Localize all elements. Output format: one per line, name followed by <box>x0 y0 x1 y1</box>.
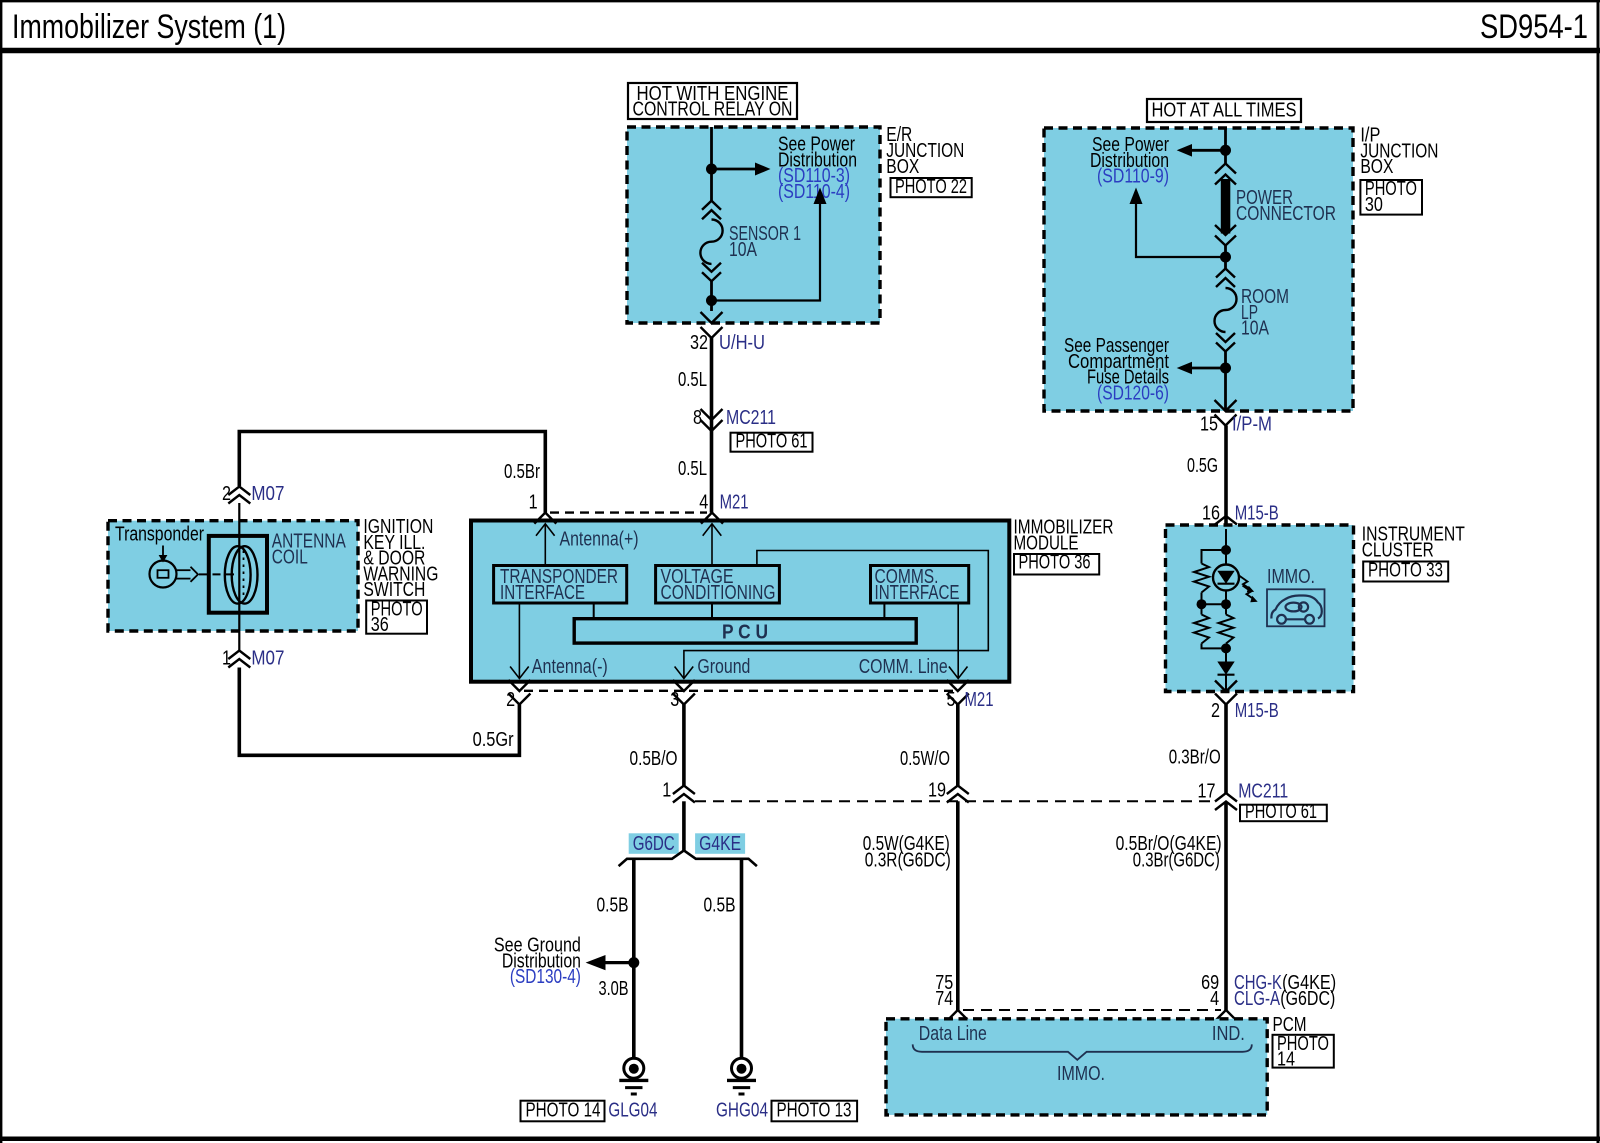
label: See Power Distribution (SD110-3)(SD110-4) <box>778 134 857 203</box>
PCM pin 69/4 chevron CHG-K/CLG-A <box>1201 972 1237 1021</box>
node: row2 left <box>1197 599 1207 609</box>
label box G6DC <box>629 833 679 855</box>
label: HOT AT ALL TIMES <box>1147 99 1301 122</box>
svg-text:1: 1 <box>529 492 538 514</box>
svg-text:CLG-A: CLG-A <box>1234 988 1280 1010</box>
wire: battery feed in I/P box <box>1224 128 1227 411</box>
wire 0.5Br/O(G4KE)/0.3Br(G6DC) to PCM <box>1116 802 1226 1011</box>
connector 2 M07 <box>222 483 284 505</box>
svg-text:Antenna(+): Antenna(+) <box>560 529 639 551</box>
svg-text:M07: M07 <box>251 648 284 670</box>
svg-text:CONNECTOR: CONNECTOR <box>1236 203 1336 225</box>
svg-text:BOX: BOX <box>886 156 919 178</box>
svg-text:CONTROL RELAY ON: CONTROL RELAY ON <box>633 99 793 121</box>
svg-text:IND.: IND. <box>1212 1023 1245 1045</box>
label: CHG-K(G4KE) <box>1234 972 1336 994</box>
wire 0.5L <box>678 338 712 513</box>
svg-text:INTERFACE: INTERFACE <box>875 582 960 604</box>
svg-text:19: 19 <box>928 780 946 802</box>
LED radiation arrows <box>1239 576 1258 603</box>
internal antenna(-) wire with arrow <box>510 603 529 679</box>
label: CLG-A(G6DC) <box>1234 988 1335 1010</box>
module top connector dashed line M21 <box>550 511 707 513</box>
fuse SENSOR 1 10A <box>700 201 801 282</box>
svg-text:Antenna(-): Antenna(-) <box>532 656 608 678</box>
svg-text:I/P-M: I/P-M <box>1232 414 1272 436</box>
svg-text:4: 4 <box>699 492 708 514</box>
wire between row2 nodes <box>1202 603 1227 605</box>
arrow up to (SD110-9) <box>1130 188 1226 258</box>
svg-text:74: 74 <box>935 988 953 1010</box>
internal arrow pin1 to transponder interface <box>536 524 555 566</box>
svg-text:PHOTO 33: PHOTO 33 <box>1368 560 1443 582</box>
internal ground routing wire <box>684 551 988 679</box>
wire: antenna(-) 0.5Gr from coil pin1 to module pin2 <box>239 668 519 756</box>
svg-text:0.5G: 0.5G <box>1187 455 1218 477</box>
svg-text:M15-B: M15-B <box>1235 700 1279 722</box>
svg-text:0.3Br/O: 0.3Br/O <box>1169 747 1221 769</box>
wire down to engine splice <box>682 801 686 850</box>
svg-text:Data Line: Data Line <box>919 1023 987 1045</box>
power connector symbol <box>1215 164 1336 246</box>
svg-text:M21: M21 <box>720 492 749 514</box>
pin 4 chevron M21 <box>699 492 748 524</box>
svg-text:(SD110-9): (SD110-9) <box>1097 166 1169 188</box>
svg-text:0.5B: 0.5B <box>704 895 736 917</box>
connector 17 MC211 <box>1198 781 1289 811</box>
label box PHOTO 14 (PCM) <box>1273 1033 1334 1071</box>
wire: battery feed in E/R box <box>710 127 713 311</box>
svg-text:G4KE: G4KE <box>699 833 741 855</box>
label box PHOTO 61 (lower) <box>1240 801 1327 823</box>
svg-text:Ground: Ground <box>697 656 750 678</box>
ground GLG04 <box>619 1058 648 1094</box>
label box G4KE <box>695 833 745 855</box>
label box PHOTO 36 (coil) <box>366 599 427 637</box>
svg-text:1: 1 <box>222 648 231 670</box>
label: HOT WITH ENGINE CONTROL RELAY ON <box>628 83 797 121</box>
wire 0.5B right ground <box>704 859 742 1058</box>
svg-text:HOT AT ALL TIMES: HOT AT ALL TIMES <box>1152 100 1297 122</box>
svg-text:PHOTO 61: PHOTO 61 <box>736 431 808 453</box>
pin 5 chevrons M21 <box>947 680 994 711</box>
connector 16 M15-B <box>1202 503 1279 541</box>
svg-text:G6DC: G6DC <box>633 833 675 855</box>
arrow to See Passenger Compartment Fuse Details <box>1177 362 1226 375</box>
cluster wire top <box>1225 529 1227 550</box>
PCM pin 75/74 chevron <box>935 972 969 1021</box>
transponder key symbol <box>150 561 199 588</box>
label: INSTRUMENT CLUSTER <box>1362 524 1465 562</box>
svg-text:3.0B: 3.0B <box>599 978 629 1000</box>
label: I/P JUNCTION BOX <box>1360 125 1438 179</box>
svg-text:0.5L: 0.5L <box>678 369 707 391</box>
arrow to See Ground Distribution 3.0B <box>586 955 634 1000</box>
connector 15 I/P-M <box>1200 400 1272 436</box>
svg-text:CLUSTER: CLUSTER <box>1362 539 1434 561</box>
svg-text:BOX: BOX <box>1360 156 1393 178</box>
connector 19 <box>928 780 969 803</box>
node: cluster top junction <box>1221 545 1231 555</box>
IMMO car indicator icon <box>1267 589 1325 626</box>
PCM box <box>886 1019 1267 1115</box>
antenna coil box (ignition key ill. & door warning switch) <box>108 521 358 631</box>
ground GHG04 <box>727 1058 756 1094</box>
svg-text:P C U: P C U <box>722 621 768 643</box>
node: row2 center <box>1221 599 1231 609</box>
block: VOLTAGE CONDITIONING <box>656 566 780 605</box>
wire 0.5B/O from module pin3 <box>630 705 684 786</box>
node: ground distribution junction <box>628 957 639 968</box>
svg-text:IMMO.: IMMO. <box>1267 566 1315 588</box>
svg-text:M21: M21 <box>965 689 994 711</box>
PCM connector dashed line <box>963 1009 1221 1011</box>
resistor R3 <box>1219 604 1234 648</box>
svg-text:10A: 10A <box>729 239 758 261</box>
label box PHOTO 33 <box>1363 560 1448 582</box>
block: PCU <box>574 619 916 644</box>
svg-text:16: 16 <box>1202 503 1220 525</box>
label: See Passenger Compartment Fuse Details (SD120-6) <box>1064 335 1169 404</box>
I/P junction box <box>1044 128 1353 411</box>
svg-text:PHOTO 22: PHOTO 22 <box>895 176 967 198</box>
node: E/R feed junction <box>706 164 717 175</box>
svg-text:0.5Gr: 0.5Gr <box>473 729 514 751</box>
E/R junction box <box>627 127 880 323</box>
svg-text:1: 1 <box>662 780 671 802</box>
svg-text:(G6DC): (G6DC) <box>1280 988 1335 1010</box>
svg-text:PHOTO 61: PHOTO 61 <box>1245 801 1317 823</box>
svg-text:15: 15 <box>1200 414 1218 436</box>
label box PHOTO 61 (MC211) <box>731 431 813 453</box>
svg-text:0.3Br(G6DC): 0.3Br(G6DC) <box>1133 850 1220 872</box>
fuse ROOM LP 10A <box>1215 269 1290 352</box>
svg-text:2: 2 <box>1211 700 1220 722</box>
wire: antenna(+) 0.5Br from coil pin2 to module pin1 <box>239 432 545 513</box>
arrow up to (SD110-4) <box>712 188 827 301</box>
wire through antenna coil <box>238 503 240 651</box>
wire 0.5W/O from module pin5 <box>900 705 958 786</box>
svg-text:SD954-1: SD954-1 <box>1480 8 1588 46</box>
dashed axis key to coil <box>199 573 237 575</box>
resistor R1 (parallel with LED) <box>1194 550 1226 604</box>
svg-text:8: 8 <box>693 407 702 429</box>
instrument cluster box <box>1166 525 1354 692</box>
label: ANTENNA COIL <box>272 531 347 569</box>
svg-text:GLG04: GLG04 <box>608 1099 657 1121</box>
svg-text:MC211: MC211 <box>726 407 776 429</box>
pin 1 chevron <box>529 492 557 524</box>
stub voltage conditioning to PCU <box>711 603 713 619</box>
svg-text:17: 17 <box>1198 781 1216 803</box>
internal arrow to ground pin3 <box>675 667 694 679</box>
immobilizer module box <box>471 521 1009 682</box>
connector 1 (ground splice) <box>662 780 695 803</box>
cluster exit chevrons pin 2 M15-B <box>1211 681 1279 723</box>
svg-text:0.5L: 0.5L <box>678 458 707 480</box>
label: IMMOBILIZER MODULE <box>1014 517 1114 555</box>
label box PHOTO 36 (module) <box>1014 552 1099 575</box>
wire 0.5W(G4KE)/0.3R(G6DC) to PCM <box>863 801 958 1010</box>
svg-text:0.3R(G6DC): 0.3R(G6DC) <box>865 850 951 872</box>
antenna coil component <box>209 536 267 613</box>
svg-text:CONDITIONING: CONDITIONING <box>661 582 776 604</box>
node: below power connector <box>1220 252 1231 263</box>
label: IGNITION KEY ILL. & DOOR WARNING SWITCH <box>363 516 438 601</box>
svg-text:MC211: MC211 <box>1238 781 1288 803</box>
svg-text:2: 2 <box>222 483 231 505</box>
svg-text:30: 30 <box>1365 194 1383 216</box>
svg-text:IMMO.: IMMO. <box>1057 1063 1105 1085</box>
node: diode input <box>1221 643 1231 653</box>
connector 1 M07 <box>222 648 284 670</box>
in-line connector dashed line MC211 row <box>695 800 1216 802</box>
svg-text:0.5B: 0.5B <box>597 895 629 917</box>
label: E/R JUNCTION BOX <box>886 124 964 178</box>
node: room lp output <box>1220 363 1231 374</box>
svg-text:COMM. Line: COMM. Line <box>859 656 948 678</box>
internal arrow pin4 to voltage conditioning <box>703 524 722 566</box>
svg-text:M15-B: M15-B <box>1235 503 1279 525</box>
svg-text:Transponder: Transponder <box>115 524 204 546</box>
svg-text:0.5W/O: 0.5W/O <box>900 748 950 770</box>
svg-text:0.5Br: 0.5Br <box>504 461 540 483</box>
svg-text:PHOTO 36: PHOTO 36 <box>1019 552 1091 574</box>
connector 32 U/H-U <box>690 312 765 354</box>
brace for IMMO pins <box>913 1044 1252 1059</box>
label: Transponder with arrow <box>115 524 204 563</box>
pin 3 chevrons <box>670 680 695 711</box>
node: I/P feed junction <box>1220 145 1231 156</box>
connector 8 MC211 <box>693 407 776 431</box>
wire 0.5B left ground <box>597 859 634 1058</box>
label: See Ground Distribution (SD130-4) <box>494 935 581 989</box>
svg-text:36: 36 <box>371 614 389 636</box>
svg-text:Immobilizer System (1): Immobilizer System (1) <box>12 8 286 46</box>
label box PHOTO 14 (GLG04) <box>521 1099 605 1121</box>
stub transponder interface to PCU <box>593 603 595 619</box>
svg-text:10A: 10A <box>1241 318 1270 340</box>
svg-text:PHOTO 14: PHOTO 14 <box>526 1099 601 1121</box>
svg-text:(SD120-6): (SD120-6) <box>1097 382 1169 404</box>
svg-text:2: 2 <box>506 689 515 711</box>
label: See Power Distribution (SD110-9) <box>1090 134 1169 188</box>
LED IMMO indicator <box>1213 550 1239 604</box>
stub comms interface to PCU <box>883 603 885 619</box>
wire 0.3Br/O <box>1169 705 1226 794</box>
svg-text:0.5B/O: 0.5B/O <box>630 748 678 770</box>
label box PHOTO 30 <box>1360 178 1422 216</box>
wire branch split to G6DC / G4KE grounds <box>619 850 757 866</box>
svg-text:3: 3 <box>670 689 679 711</box>
internal comm line wire with arrow <box>949 603 968 679</box>
svg-text:(SD110-4): (SD110-4) <box>778 181 850 203</box>
block: TRANSPONDER INTERFACE <box>494 566 627 605</box>
svg-text:INTERFACE: INTERFACE <box>500 582 585 604</box>
arrow to See Power Distribution <box>712 163 771 176</box>
module bottom connector dashed line M21 <box>524 690 953 692</box>
svg-text:4: 4 <box>1210 988 1219 1010</box>
node: fuse output junction <box>706 295 717 306</box>
svg-text:M07: M07 <box>251 483 284 505</box>
svg-text:(SD130-4): (SD130-4) <box>510 966 581 988</box>
svg-text:COIL: COIL <box>272 546 308 568</box>
svg-text:U/H-U: U/H-U <box>719 332 765 354</box>
resistor R2 <box>1194 604 1226 648</box>
svg-text:5: 5 <box>947 689 956 711</box>
svg-text:14: 14 <box>1277 1049 1295 1071</box>
diode D1 <box>1217 648 1234 691</box>
svg-text:GHG04: GHG04 <box>716 1099 768 1121</box>
wire 0.5G <box>1187 426 1226 531</box>
svg-text:PHOTO 13: PHOTO 13 <box>777 1099 852 1121</box>
block: COMMS. INTERFACE <box>871 566 969 605</box>
label box PHOTO 13 (GHG04) <box>772 1099 858 1121</box>
arrow to See Power Distribution (SD110-9) <box>1177 144 1226 157</box>
label box PHOTO 22 <box>891 176 972 198</box>
pin 2 chevrons <box>506 680 530 711</box>
svg-text:32: 32 <box>690 332 708 354</box>
